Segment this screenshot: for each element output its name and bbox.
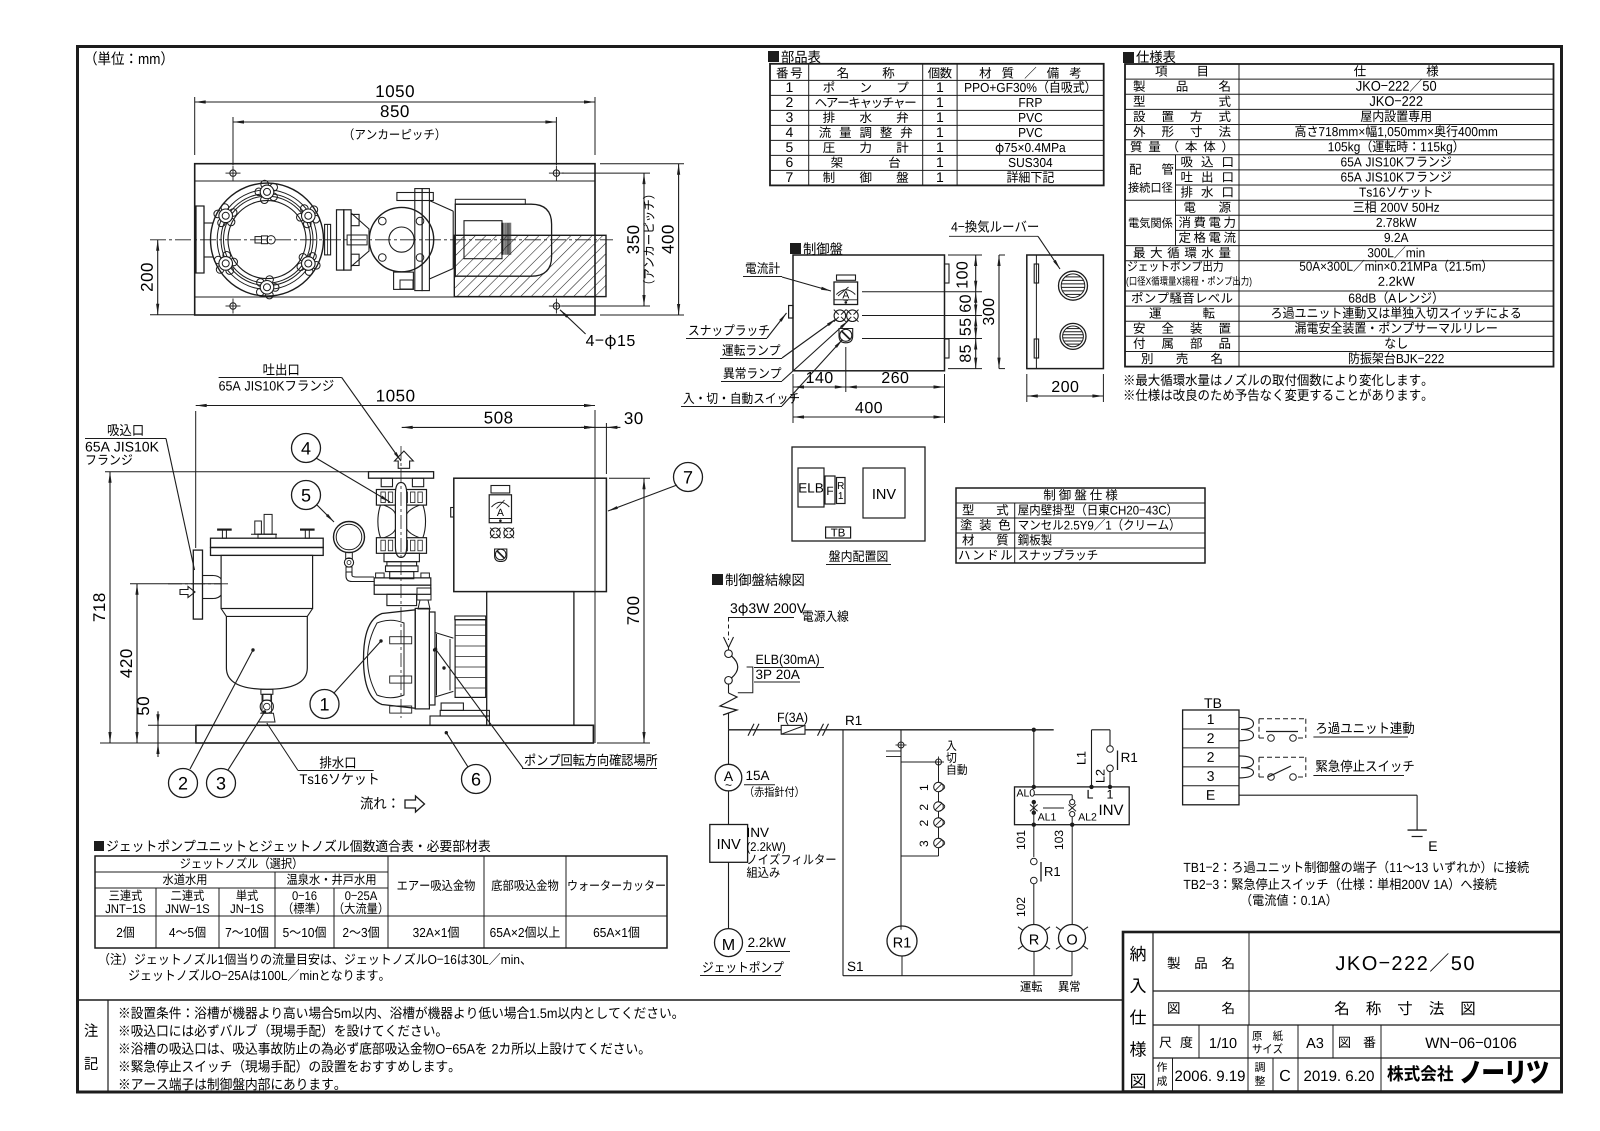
dim 850 anchor pitch	[232, 117, 234, 165]
panel dims right: 100/60/55/85	[948, 254, 982, 256]
panel selector switch	[495, 549, 507, 562]
emergency stop switch (dashed)	[1259, 756, 1306, 758]
dim 30	[605, 423, 607, 474]
terminal block TB	[1204, 698, 1221, 708]
spec table notes	[1125, 374, 1426, 387]
side view dim 200	[1026, 374, 1028, 402]
panel latch (left edge)	[789, 306, 793, 319]
panel selector switch	[839, 329, 853, 343]
motor foot and pads	[441, 703, 463, 710]
air vent on lid	[255, 521, 262, 534]
pump casing (item 1)	[364, 610, 416, 709]
title row2 drawing name	[1168, 1002, 1233, 1014]
centerline	[150, 239, 613, 241]
pump discharge (top view)	[415, 189, 422, 291]
label ammeter	[746, 262, 780, 274]
side view hinges	[1034, 264, 1038, 283]
drain valve (item 3)	[261, 689, 273, 694]
callout 7	[674, 463, 703, 492]
pump-motor bracket	[435, 633, 453, 639]
coupling (top view)	[325, 224, 331, 255]
notes box	[76, 999, 1123, 1001]
layout INV box	[863, 468, 905, 518]
vent louver top	[1059, 271, 1088, 300]
wiring diagram heading	[712, 574, 723, 585]
title row1 product name	[1248, 932, 1250, 1025]
dim 1050 (top view)	[194, 97, 196, 155]
label pump rotation check	[525, 754, 657, 767]
wire to AL0	[1033, 730, 1035, 787]
label error lamp	[724, 367, 782, 379]
TB connection notes	[1184, 861, 1529, 874]
label drain port	[320, 756, 355, 768]
callout 6	[462, 765, 491, 794]
layout caption	[829, 550, 887, 562]
dim 700	[609, 477, 650, 479]
dim 50	[148, 724, 195, 726]
relay contact R1 top right (L1/L2)	[1091, 730, 1093, 787]
callout 3	[207, 769, 236, 798]
panel door latch	[451, 508, 454, 518]
company logo NORITZ	[1387, 1065, 1453, 1081]
layout TB box	[826, 527, 851, 538]
layout R1 box	[837, 478, 846, 504]
suction centerline + flow arrow	[168, 583, 228, 585]
panel run/error lamps	[834, 310, 846, 322]
panel dims bottom: 140/260/400	[792, 374, 794, 423]
earth wire and ground symbol E	[1239, 794, 1417, 796]
power source label 3phi3W 200V	[731, 603, 806, 616]
panel stand column	[487, 592, 574, 726]
pump casing (top view)	[429, 201, 453, 212]
dim 400	[600, 163, 684, 165]
S1 rail	[842, 730, 844, 976]
lamp labels	[1020, 981, 1042, 993]
spec table heading	[1123, 52, 1134, 63]
discharge flange plate (top)	[369, 472, 434, 479]
callout 4	[292, 434, 321, 463]
dim 420	[130, 583, 221, 585]
base frame	[195, 164, 595, 315]
dim 350 anchor pitch	[562, 172, 650, 174]
title row4	[1172, 1058, 1174, 1092]
up flow arrow	[395, 451, 414, 468]
anchor bolt holes 4-phi15	[230, 170, 236, 176]
label discharge port	[264, 363, 299, 375]
spec table	[1125, 64, 1554, 367]
vessel wing bolts	[217, 528, 232, 530]
layout ELB box	[798, 468, 824, 507]
hair catcher vessel	[211, 538, 324, 547]
layout F box	[825, 476, 835, 504]
INV internal alarm contacts AL0/AL1/AL2	[1017, 789, 1035, 796]
label flow direction	[361, 796, 395, 809]
valve bonnet capsule	[395, 483, 406, 558]
pump stud bolts	[390, 637, 412, 644]
unit label (mm)	[93, 51, 164, 65]
motor M 2.2kW jet pump	[728, 862, 730, 928]
parts table	[770, 64, 1104, 186]
INV terminal box right	[1015, 787, 1130, 825]
label suction port	[108, 424, 143, 436]
flow adjust valve (item 4)	[376, 490, 426, 506]
title block	[1123, 932, 1562, 1092]
fuse F(3A)	[778, 712, 807, 725]
title row3	[1198, 1025, 1200, 1058]
nozzle table heading	[94, 841, 104, 851]
callout 5	[292, 481, 321, 510]
panel internal layout box	[792, 447, 925, 541]
panel front box	[793, 255, 945, 371]
label snap latch	[689, 324, 769, 336]
filter unit interlock contact (dashed)	[1259, 718, 1306, 720]
pump suction flange (top view)	[369, 207, 433, 271]
suction flange (top view)	[196, 206, 204, 273]
ammeter A 15A	[728, 730, 730, 765]
nozzle table notes	[106, 953, 524, 965]
pump discharge flange assembly	[376, 573, 385, 578]
error lamp O	[1059, 925, 1086, 952]
label 4-phi15	[560, 310, 586, 334]
motor (top view)	[455, 204, 551, 276]
lamp circuit 101/103	[1033, 825, 1035, 857]
breaker ELB	[728, 648, 730, 651]
panel ammeter icon	[491, 486, 510, 494]
panel dim 300	[998, 255, 1000, 369]
cam switch contacts 1/2/2/3	[938, 762, 940, 851]
main bus wire R1	[729, 729, 1054, 731]
motor fins	[501, 223, 503, 255]
panel hinges (right edge)	[945, 264, 950, 283]
control panel box (front view)	[454, 478, 607, 591]
callout 2	[169, 769, 198, 798]
vent louver bottom	[1060, 323, 1086, 349]
dim 1050 (front)	[195, 411, 197, 548]
valve flange plates (top view)	[337, 210, 344, 270]
selector switch column	[900, 730, 902, 926]
TB hook wires 2-3	[1239, 756, 1254, 778]
TB hook wires 1-2	[1239, 717, 1254, 740]
inverter INV box	[728, 791, 730, 825]
title block left label	[1130, 946, 1145, 962]
power inlet dashed wire	[728, 618, 730, 641]
control panel spec table	[956, 488, 1205, 563]
nozzle table	[95, 856, 667, 948]
panel lamps	[490, 528, 500, 538]
panel side view box	[1027, 255, 1104, 369]
hair catcher (top view)	[211, 183, 324, 296]
label 4-louver	[951, 220, 1038, 233]
panel ammeter	[837, 275, 856, 280]
control panel heading	[790, 243, 801, 254]
suction flange (front)	[193, 550, 202, 619]
pressure gauge (item 5)	[334, 522, 365, 553]
parts table heading	[768, 51, 779, 62]
contact R1 in lamp line	[1031, 858, 1038, 865]
callout 1	[310, 690, 339, 719]
base plate (front)	[196, 725, 594, 743]
valve lower adapter	[384, 553, 419, 562]
relay coil R1	[887, 926, 917, 956]
label run lamp	[722, 344, 780, 356]
dim 200	[150, 314, 194, 316]
label on/off/auto switch	[683, 392, 799, 404]
dim 718	[105, 471, 368, 473]
dim 508	[402, 426, 595, 428]
motor (front)	[455, 616, 486, 620]
run lamp R	[1021, 925, 1048, 952]
thermal trip zigzag	[728, 684, 730, 693]
node R1 label	[846, 716, 861, 725]
